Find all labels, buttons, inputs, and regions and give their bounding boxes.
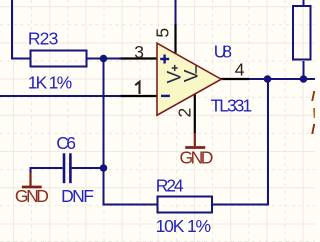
svg-text:W: W [312, 105, 315, 122]
svg-text:10K 1%: 10K 1% [156, 216, 212, 236]
svg-text:5: 5 [153, 28, 173, 38]
svg-text:R24: R24 [156, 175, 184, 195]
svg-text:2: 2 [175, 108, 195, 118]
svg-text:C6: C6 [56, 133, 76, 153]
svg-text:U8: U8 [214, 42, 232, 62]
svg-text:4: 4 [235, 59, 245, 79]
svg-text:R23: R23 [28, 29, 58, 49]
svg-text:GND: GND [15, 186, 49, 206]
svg-text:1K 1%: 1K 1% [28, 72, 72, 92]
svg-text:GND: GND [180, 147, 214, 167]
svg-text:TL331: TL331 [211, 96, 253, 116]
svg-text:M: M [311, 121, 315, 138]
svg-text:V: V [182, 69, 203, 82]
svg-text:M: M [311, 88, 315, 105]
svg-text:3: 3 [134, 42, 144, 62]
svg-text:DNF: DNF [61, 186, 94, 206]
